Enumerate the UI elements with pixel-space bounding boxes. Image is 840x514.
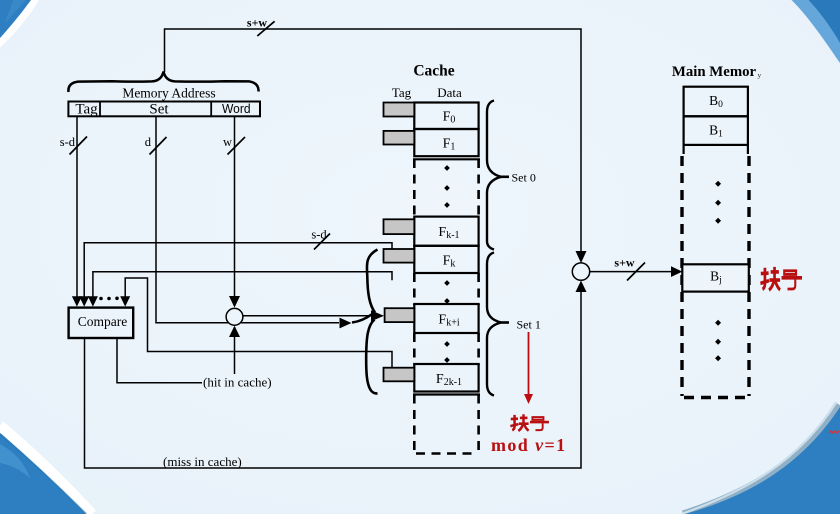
top-left corner blue wedge white rim bbox=[0, 0, 36, 45]
word junction circle bbox=[226, 308, 243, 325]
cache data row Fk-1 bbox=[414, 217, 478, 246]
ellipsis dots between compare arrows bbox=[99, 297, 119, 301]
main memory dots upper bbox=[715, 181, 721, 224]
memory address register box bbox=[68, 101, 260, 118]
main memory box Bj bbox=[682, 264, 749, 291]
svg-text:s-d: s-d bbox=[311, 228, 327, 242]
svg-text:Main Memor: Main Memor bbox=[672, 64, 757, 80]
cache tag box Tk bbox=[384, 249, 415, 263]
red squiggle mark bbox=[829, 431, 839, 433]
cache data row Fk bbox=[414, 246, 478, 273]
cache tag box Tk-1 bbox=[384, 219, 415, 234]
compare box bbox=[69, 308, 134, 338]
bottom-left blue area bbox=[0, 433, 95, 514]
solid closing line under F1 bbox=[413, 158, 480, 160]
word junction arrow in bbox=[229, 296, 240, 308]
red arrow from set 1 bbox=[524, 332, 533, 404]
svg-text:Data: Data bbox=[437, 85, 462, 100]
main memory solid stubs bbox=[684, 145, 748, 154]
main memory dashed column bbox=[682, 156, 749, 398]
fan curve joining set lines bbox=[352, 250, 378, 394]
svg-text:y: y bbox=[758, 71, 762, 80]
bottom-right shadow edge bbox=[683, 404, 838, 514]
wire tag of F2k-1 row to compare bbox=[125, 278, 392, 368]
cache tag box T1 bbox=[384, 131, 415, 145]
top-right corner dark blue bbox=[809, 0, 840, 43]
cache data row F0 bbox=[414, 103, 478, 130]
bottom-left white rim bbox=[0, 426, 92, 514]
junction output to set-1 tag arrow bbox=[243, 315, 370, 317]
wire set field to set-select arrow bbox=[145, 116, 339, 322]
main memory box B1 bbox=[684, 116, 748, 145]
brace set 1 bbox=[487, 253, 501, 396]
main-memory junction arrows bbox=[576, 251, 587, 292]
top-right corner light blue band bbox=[792, 0, 840, 63]
cache tag box Tk+i bbox=[385, 308, 415, 322]
wire tag of Fk row to compare bbox=[84, 228, 392, 298]
bottom-right blue area bbox=[685, 407, 840, 514]
cache data row Fk+i bbox=[414, 304, 478, 333]
brace set 0 bbox=[487, 101, 501, 250]
cache data row F2k-1 bbox=[414, 364, 478, 392]
hit wire from compare bbox=[117, 338, 202, 383]
miss wire from compare to main-memory junction bbox=[85, 292, 582, 469]
arrowhead into set-1 tag bbox=[371, 310, 384, 321]
brace over memory address bbox=[68, 72, 258, 93]
s+w label (top) bbox=[247, 16, 275, 37]
svg-text:d: d bbox=[145, 135, 152, 149]
svg-text:mod v=1: mod v=1 bbox=[491, 435, 567, 455]
svg-text:Tag: Tag bbox=[392, 85, 412, 100]
cache column dots bbox=[444, 165, 450, 363]
hit wire up to word junction bbox=[229, 326, 240, 374]
solid closing line under F2k-1 bbox=[413, 393, 480, 395]
red label kuai hao (main memory) bbox=[760, 267, 802, 290]
cache dashed column edges bbox=[414, 159, 478, 454]
main memory box B0 bbox=[684, 87, 748, 117]
set select arrowhead bbox=[340, 318, 352, 329]
svg-text:Memory Address: Memory Address bbox=[122, 86, 215, 101]
svg-text:s+w: s+w bbox=[614, 256, 635, 270]
svg-text:Cache: Cache bbox=[413, 63, 454, 80]
svg-text:w: w bbox=[223, 135, 232, 149]
svg-text:s+w: s+w bbox=[247, 16, 268, 30]
svg-text:Set 0: Set 0 bbox=[512, 171, 536, 185]
svg-text:Tag: Tag bbox=[75, 101, 98, 117]
cache data row F1 bbox=[414, 129, 478, 156]
cache tag box T2k-1 bbox=[384, 368, 415, 382]
svg-text:Word: Word bbox=[222, 101, 251, 116]
wire tag field to compare bbox=[60, 116, 87, 297]
svg-text:(miss in cache): (miss in cache) bbox=[163, 454, 242, 469]
main memory dots lower bbox=[715, 320, 721, 361]
compare input arrowheads bbox=[72, 296, 130, 306]
wire stub row select bbox=[93, 272, 392, 298]
svg-text:(hit in cache): (hit in cache) bbox=[203, 375, 272, 390]
top-left corner blue wedge bbox=[0, 0, 31, 38]
red label kuai hao (cache) bbox=[510, 414, 549, 431]
wire junction to Bj bbox=[590, 256, 683, 281]
svg-text:s-d: s-d bbox=[60, 135, 76, 149]
svg-text:Set 1: Set 1 bbox=[517, 318, 541, 332]
wire s+w from address brace to main-memory junction bbox=[165, 29, 582, 252]
cache tag box T0 bbox=[384, 103, 415, 117]
wire word field to word junction bbox=[223, 116, 245, 297]
svg-text:Set: Set bbox=[149, 101, 169, 117]
main-memory junction circle bbox=[572, 263, 589, 280]
svg-text:Compare: Compare bbox=[78, 314, 128, 329]
